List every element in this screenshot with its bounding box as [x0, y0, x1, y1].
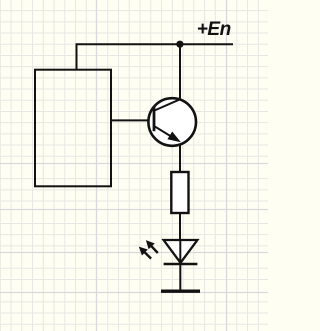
- wire cathode to ground: [179, 264, 181, 291]
- resistor R1: [171, 172, 188, 213]
- wire resistor to LED: [179, 213, 181, 240]
- transistor Q1: [148, 98, 196, 146]
- wire emitter: [179, 145, 181, 173]
- wire collector: [179, 44, 181, 99]
- LED VD1: [139, 240, 198, 264]
- wire base: [111, 119, 154, 121]
- svg-text:+En: +En: [197, 19, 231, 40]
- block U1: [35, 70, 111, 187]
- wire +En rail: [76, 43, 234, 45]
- junction node on +En rail: [176, 41, 183, 48]
- wire block-top to rail: [76, 44, 78, 69]
- ground: [161, 290, 200, 293]
- LED light arrows: [144, 245, 158, 258]
